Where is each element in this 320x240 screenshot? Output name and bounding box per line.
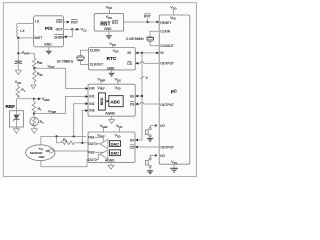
svg-text:CS: CS — [127, 62, 132, 66]
resistor RF — [61, 141, 74, 145]
svg-text:3: 3 — [146, 76, 148, 80]
svg-text:µC: µC — [171, 89, 178, 95]
svg-text:RST: RST — [56, 20, 63, 24]
svg-text:MUX: MUX — [100, 97, 104, 105]
node OUT1-IN3 junction — [81, 142, 83, 144]
wire DAC CS to uC — [135, 146, 159, 148]
wire RF drop — [57, 136, 62, 142]
node RST net — [147, 21, 149, 23]
arrow PS RST net — [64, 21, 68, 23]
block DAC1 — [110, 141, 121, 147]
svg-text:RST: RST — [144, 15, 152, 19]
svg-text:OUTPUT: OUTPUT — [160, 146, 174, 150]
wire sensor bottom to OUT2 — [41, 160, 88, 167]
svg-text:GND: GND — [107, 66, 115, 70]
svg-text:FB2: FB2 — [88, 151, 94, 155]
node SI bus junction — [141, 52, 143, 54]
chip uC box — [159, 15, 190, 164]
transistor Q2 — [155, 154, 157, 156]
svg-text:S/I: S/I — [130, 138, 134, 142]
resistor RL2 — [32, 99, 36, 114]
svg-text:I/O: I/O — [160, 154, 165, 158]
transistor Q1 — [155, 124, 157, 126]
op-amp A2 — [100, 150, 108, 159]
wire ADC CS to uC — [135, 103, 140, 105]
svg-text:AGND: AGND — [105, 112, 115, 116]
svg-text:2.4576MHz: 2.4576MHz — [126, 37, 144, 41]
svg-text:S/I: S/I — [130, 95, 134, 99]
wire IN2 tap — [74, 104, 87, 137]
svg-text:CLKOUT: CLKOUT — [160, 44, 173, 48]
svg-text:IN0: IN0 — [89, 87, 94, 91]
ground ADC AGND — [111, 116, 113, 119]
ground Q1 — [147, 138, 153, 141]
wire RTC CS to uC — [135, 62, 140, 64]
node VTMP — [33, 113, 35, 115]
block MUX — [99, 93, 106, 110]
svg-text:RST: RST — [71, 20, 79, 24]
wire VCC to SHDN — [67, 29, 73, 37]
resistor RL1 — [16, 86, 20, 97]
wire ADC SI to bus — [135, 95, 142, 97]
wire RTC SI to uC — [135, 52, 159, 54]
svg-text:SENSOR: SENSOR — [30, 151, 44, 155]
svg-text:SI: SI — [160, 51, 163, 55]
sensor ellipse — [26, 145, 55, 161]
chip RST box — [94, 13, 123, 31]
block ADC — [109, 96, 123, 107]
wire sensor RS to FB2 — [53, 151, 87, 152]
svg-text:CLKIN: CLKIN — [90, 49, 100, 53]
crystal X1 32.768kHz — [80, 50, 88, 56]
resistor RB2 — [33, 68, 37, 83]
chip ADC box — [88, 84, 135, 116]
ground Q2 — [147, 171, 153, 174]
capacitor C1 — [15, 60, 22, 62]
svg-text:LX: LX — [20, 29, 25, 33]
node FB1-RF junction — [55, 135, 57, 137]
svg-text:SHDN: SHDN — [54, 35, 64, 39]
wire VREF node — [18, 95, 34, 98]
svg-text:I/O: I/O — [160, 124, 165, 128]
arrow VREF — [34, 98, 38, 100]
node VDIV — [33, 67, 35, 69]
svg-text:32.768kHz: 32.768kHz — [57, 59, 74, 63]
arrow MUX to ADC — [105, 100, 107, 102]
svg-text:RST: RST — [112, 21, 119, 25]
wire LX pin — [18, 22, 33, 24]
wire IN3 tap — [82, 111, 86, 143]
wire VTMP to IN1 — [34, 97, 86, 114]
chip DAC box — [88, 132, 135, 162]
svg-text:GND: GND — [104, 27, 112, 31]
node BATT junction — [17, 37, 19, 39]
svg-text:OUTPUT: OUTPUT — [160, 103, 174, 107]
svg-text:REF: REF — [6, 104, 16, 110]
svg-text:CLKOUT: CLKOUT — [90, 63, 103, 67]
svg-text:LX: LX — [35, 20, 40, 24]
svg-text:FB1: FB1 — [88, 135, 94, 139]
zener REF — [16, 111, 18, 115]
svg-text:IN3: IN3 — [89, 109, 94, 113]
wire VBAT rail — [17, 38, 19, 61]
inductor LX — [17, 23, 19, 37]
crystal X2 2.4576MHz — [150, 31, 159, 36]
ground RTC — [111, 70, 113, 73]
resistor RB1 — [33, 58, 37, 69]
node VREF junction — [33, 98, 35, 100]
svg-text:RESET: RESET — [160, 21, 171, 25]
ground uC VSS — [173, 164, 175, 168]
block DAC2 — [110, 150, 121, 156]
wire BATT pin — [18, 37, 33, 39]
svg-text:IN1: IN1 — [89, 95, 94, 99]
wire RST to uC RESET — [124, 21, 157, 23]
svg-text:CS: CS — [130, 145, 135, 149]
wire RF to OUT1 — [74, 142, 87, 144]
svg-text:OUT: OUT — [56, 28, 63, 32]
wire sensor top to FB1 — [41, 136, 86, 145]
ground RT — [33, 126, 35, 129]
svg-text:GND: GND — [39, 155, 45, 159]
svg-text:OUT1: OUT1 — [88, 142, 97, 146]
ground DAC AGND — [110, 162, 112, 165]
svg-text:CLKIN: CLKIN — [160, 29, 170, 33]
svg-text:AGND: AGND — [105, 158, 115, 162]
ground RB2 arrow — [31, 85, 36, 89]
svg-text:CS: CS — [130, 102, 135, 106]
chip RTC box — [89, 48, 136, 70]
svg-text:S/I: S/I — [127, 51, 131, 55]
node VBAT — [17, 52, 19, 54]
ground RST — [108, 31, 110, 35]
svg-text:P/S: P/S — [45, 26, 53, 31]
ground capacitor — [15, 70, 21, 75]
border frame — [3, 3, 196, 177]
svg-text:DAC: DAC — [111, 152, 119, 156]
thermistor RT — [33, 114, 35, 117]
svg-text:RTC: RTC — [107, 56, 117, 62]
svg-text:GND: GND — [44, 43, 52, 47]
svg-text:DAC: DAC — [111, 142, 119, 146]
ground REF — [16, 127, 18, 129]
chip PS box — [34, 16, 64, 47]
node FB1-IN2 junction — [73, 135, 75, 137]
svg-text:IN2: IN2 — [89, 102, 94, 106]
bus SI vertical — [135, 53, 142, 140]
svg-text:OUT2: OUT2 — [88, 158, 97, 162]
wire VBAT to RB1 — [18, 53, 34, 58]
svg-text:ADC: ADC — [110, 99, 120, 104]
svg-text:OUTPUT: OUTPUT — [160, 62, 174, 66]
op-amp A1 — [100, 139, 108, 148]
ground PS — [48, 47, 50, 51]
wire PS OUT to VCC — [64, 28, 73, 30]
wire VDIV to IN0 — [34, 68, 86, 88]
bus width marker 3 — [140, 76, 145, 79]
svg-text:BATT: BATT — [35, 36, 43, 40]
